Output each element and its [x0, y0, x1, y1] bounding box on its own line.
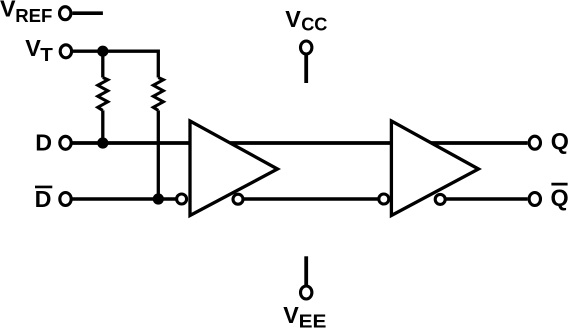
- terminal VCC: [301, 41, 312, 54]
- svg-text:V: V: [25, 35, 41, 61]
- junction VT/R1: [97, 46, 108, 57]
- wire VT to corner: [73, 51, 158, 77]
- svg-text:V: V: [283, 302, 299, 328]
- wire U2 Qbar output: [446, 197, 528, 201]
- inversion bubble U2 input: [379, 194, 389, 204]
- buffer U2: [391, 121, 478, 216]
- svg-text:V: V: [285, 6, 301, 32]
- inversion bubble U1 input: [177, 194, 187, 204]
- node Dbar label: [35, 186, 53, 212]
- terminal VEE: [301, 286, 312, 299]
- svg-text:D: D: [35, 186, 52, 212]
- node VT label: [25, 35, 53, 65]
- svg-text:Q: Q: [551, 128, 568, 154]
- junction D/R1: [97, 137, 108, 148]
- resistor R1: [98, 78, 108, 111]
- resistor R2: [153, 78, 163, 111]
- svg-text:EE: EE: [299, 310, 327, 328]
- terminal Q: [529, 136, 540, 149]
- svg-text:REF: REF: [15, 5, 52, 26]
- wire R1 top lead: [101, 51, 104, 77]
- svg-text:Q: Q: [551, 185, 568, 211]
- wire VREF stub: [72, 11, 103, 15]
- svg-text:D: D: [35, 130, 52, 156]
- wire R2 bottom lead: [157, 110, 160, 199]
- wire Dbar input segment: [72, 197, 176, 201]
- wire U1 Qbar to U2 input: [244, 197, 378, 201]
- terminal VT: [60, 45, 71, 58]
- terminal Dbar: [60, 193, 71, 206]
- svg-text:T: T: [40, 44, 53, 65]
- wire VEE: [304, 256, 308, 285]
- node VREF label: [0, 0, 52, 26]
- inversion bubble U2 output: [435, 194, 445, 204]
- buffer U1: [190, 121, 278, 216]
- wire VCC: [304, 55, 308, 83]
- terminal Qbar: [529, 193, 540, 206]
- svg-text:CC: CC: [301, 14, 327, 35]
- junction Dbar/R2: [153, 193, 164, 204]
- wire R1 bottom lead: [101, 110, 104, 143]
- node Qbar label: [551, 184, 568, 211]
- node VEE label: [283, 302, 326, 328]
- inversion bubble U1 output: [233, 194, 243, 204]
- svg-text:V: V: [0, 0, 16, 22]
- wire D line (top rail): [72, 141, 528, 145]
- terminal D: [60, 136, 71, 149]
- node VCC label: [285, 6, 327, 35]
- terminal VREF: [59, 7, 70, 20]
